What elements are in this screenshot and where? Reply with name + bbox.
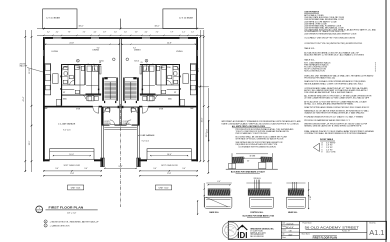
svg-text:17'-8": 17'-8" xyxy=(167,173,172,175)
courtyard dimension xyxy=(105,167,137,169)
svg-text:0607: 0607 xyxy=(289,234,293,236)
svg-text:● 2-CAR GARAGE: ● 2-CAR GARAGE xyxy=(58,123,76,126)
svg-text:2X6 EXT: 2X6 EXT xyxy=(20,64,26,66)
unit 102 label xyxy=(155,185,171,190)
sheet border right edge xyxy=(385,0,387,242)
svg-text:2'-10": 2'-10" xyxy=(310,196,312,200)
base sill detail xyxy=(206,182,232,184)
unit 101 label xyxy=(68,185,84,190)
svg-text:CONTROL SILL: CONTROL SILL xyxy=(250,212,264,214)
smoke detector symbols xyxy=(77,59,80,62)
svg-text:PORCH: PORCH xyxy=(104,123,111,125)
svg-text:TABLE 602 -: TABLE 602 - xyxy=(304,59,315,62)
svg-text:24'-0": 24'-0" xyxy=(207,128,209,133)
svg-text:LIN: LIN xyxy=(141,62,143,64)
svg-text:2009 VERMONT RESIDENTIAL BUILD: 2009 VERMONT RESIDENTIAL BUILDING ENERGY… xyxy=(304,32,357,35)
svg-text:PER ICC/ANSI A117.1 SECTION 10: PER ICC/ANSI A117.1 SECTION 1003 xyxy=(236,132,268,135)
svg-text:BASE SILL: BASE SILL xyxy=(210,211,220,214)
svg-text:Job: Job xyxy=(282,233,284,235)
svg-text:5'-9": 5'-9" xyxy=(135,32,138,34)
grab bar blocking detail toilet xyxy=(226,168,278,170)
svg-text:9'-0": 9'-0" xyxy=(182,168,186,170)
svg-text:STATE CODE AS APPLICABLE. VERI: STATE CODE AS APPLICABLE. VERIFY ALL BLO… xyxy=(221,122,299,125)
center property line xyxy=(120,104,122,207)
svg-text:9'-0" CLG: 9'-0" CLG xyxy=(142,141,150,143)
svg-text:36" MIN: 36" MIN xyxy=(249,155,256,157)
svg-text:DRAFTSTOPPING AND FIREBLOCKING: DRAFTSTOPPING AND FIREBLOCKING PER SEC R… xyxy=(304,106,369,109)
svg-text:56 OLD ACADEMY STREET: 56 OLD ACADEMY STREET xyxy=(305,225,359,229)
svg-text:FIRST FLOOR PLAN: FIRST FLOOR PLAN xyxy=(49,206,84,210)
svg-text:24" MIN CLEAR HEIGHT AND 20" M: 24" MIN CLEAR HEIGHT AND 20" MIN CLEAR W… xyxy=(304,97,370,100)
svg-text:UNIT #101: UNIT #101 xyxy=(71,188,82,190)
svg-text:1/4" = 1'-0": 1/4" = 1'-0" xyxy=(67,212,77,214)
svg-text:16'-0": 16'-0" xyxy=(69,154,74,156)
party wall xyxy=(119,37,121,125)
svg-text:TEL 603-888-3545: TEL 603-888-3545 xyxy=(250,234,263,236)
svg-text:20'-0": 20'-0" xyxy=(202,117,204,122)
svg-text:4'-0": 4'-0" xyxy=(217,181,221,183)
svg-text:9'-4": 9'-4" xyxy=(133,47,136,49)
bottom dimension row unit 102 xyxy=(139,170,198,172)
svg-text:7'-0": 7'-0" xyxy=(83,32,86,34)
svg-text:4'-2": 4'-2" xyxy=(182,32,185,34)
svg-text:SMOKE ALARMS SHALL COMPLY WITH: SMOKE ALARMS SHALL COMPLY WITH NFPA 72 A… xyxy=(304,82,363,85)
architect seal xyxy=(222,222,238,238)
svg-text:7'-9": 7'-9" xyxy=(170,32,173,34)
svg-text:FOUNDATION ANCHOR BOLTS 1/2" D: FOUNDATION ANCHOR BOLTS 1/2" DIA AT 6' O… xyxy=(304,115,364,118)
svg-text:12 X 24 BEAM: 12 X 24 BEAM xyxy=(46,16,60,19)
svg-text:34'-0": 34'-0" xyxy=(78,25,83,27)
svg-text:16'X7' OVHD DOOR: 16'X7' OVHD DOOR xyxy=(161,165,178,167)
svg-text:SEISMIC DESIGN CATEGORY B; WIN: SEISMIC DESIGN CATEGORY B; WIND SPEED 10… xyxy=(304,125,362,128)
svg-text:PROVIDED) PER TABLE R302.1(1): PROVIDED) PER TABLE R302.1(1) xyxy=(304,77,335,80)
beam note box left xyxy=(43,9,77,29)
svg-text:● 2-CAR GARAGE: ● 2-CAR GARAGE xyxy=(138,134,156,137)
svg-text:24'-8": 24'-8" xyxy=(69,43,74,45)
svg-text:= SMOKE DETECTOR - HARDWIRED,: = SMOKE DETECTOR - HARDWIRED, BATTERY BA… xyxy=(50,220,99,223)
svg-text:= CARBON DETECTOR: = CARBON DETECTOR xyxy=(50,224,70,227)
svg-text:22'-11": 22'-11" xyxy=(29,68,31,74)
svg-text:5'-0": 5'-0" xyxy=(124,32,127,34)
svg-text:IDI: IDI xyxy=(237,231,247,240)
svg-text:5'-2": 5'-2" xyxy=(47,32,50,34)
courtyard entry steps xyxy=(104,127,137,129)
head sill dimension xyxy=(308,182,310,209)
floor plan unit 101 walls and interior xyxy=(43,37,121,167)
head sill detail xyxy=(286,182,305,184)
svg-text:DOOR TABLE: DOOR TABLE xyxy=(320,138,334,141)
svg-text:7'-9": 7'-9" xyxy=(68,32,71,34)
svg-text:4'-0": 4'-0" xyxy=(94,32,97,34)
svg-text:18'-5": 18'-5" xyxy=(29,140,31,145)
svg-text:LIVING: LIVING xyxy=(176,51,183,53)
svg-text:A1.1: A1.1 xyxy=(369,228,384,237)
svg-text:9'-4": 9'-4" xyxy=(97,47,100,49)
svg-text:FIRST FLOOR PLAN: FIRST FLOOR PLAN xyxy=(313,236,337,239)
svg-text:Fairlee, VT: Fairlee, VT xyxy=(342,231,350,233)
svg-text:OCCUPANCY USE GROUP "R3" TWO D: OCCUPANCY USE GROUP "R3" TWO DWELLING UN… xyxy=(304,37,355,40)
segmented top dimension line xyxy=(37,34,204,36)
svg-text:CONSTRUCTION TYPE: 5B (UNPROTE: CONSTRUCTION TYPE: 5B (UNPROTECTED) NONP… xyxy=(304,43,363,45)
legend carbon detector xyxy=(44,224,47,227)
bottom dimension row unit 101 xyxy=(43,170,102,172)
svg-text:0: 0 xyxy=(375,70,376,72)
IDI logo house xyxy=(237,225,247,230)
svg-text:DINING: DINING xyxy=(134,49,141,51)
svg-text:UNIT #102: UNIT #102 xyxy=(159,188,170,190)
svg-text:Drawn: Drawn xyxy=(282,230,286,232)
first floor plan title symbol xyxy=(36,206,43,213)
title block frame xyxy=(228,221,386,239)
svg-text:NON CONSTRUCTION: NON CONSTRUCTION xyxy=(304,70,325,72)
control sill detail xyxy=(246,182,271,184)
svg-text:IN HALL CLG. INSULATE AND WEAT: IN HALL CLG. INSULATE AND WEATHERSTRIP P… xyxy=(304,102,354,105)
svg-text:9'-0": 9'-0" xyxy=(55,168,59,170)
svg-text:WITH FACE OF STUDS, CENTERED 3: WITH FACE OF STUDS, CENTERED 34" ABOVE F… xyxy=(236,138,285,141)
left vertical dimension line inner xyxy=(31,30,33,172)
svg-text:D: D xyxy=(94,64,95,66)
svg-text:KIT: KIT xyxy=(63,92,65,94)
left vertical dimension line outer xyxy=(24,30,26,172)
svg-text:16'-0" OVHD: 16'-0" OVHD xyxy=(326,152,336,154)
living dimension center ticks xyxy=(110,44,111,45)
title block logo section divider xyxy=(280,221,282,239)
svg-text:16'-1": 16'-1" xyxy=(198,67,200,72)
svg-text:2X8 BLKG: 2X8 BLKG xyxy=(253,178,261,180)
svg-text:9'-0": 9'-0" xyxy=(153,168,157,170)
svg-text:CONTRACTOR SHALL BE RESPONSIBL: CONTRACTOR SHALL BE RESPONSIBLE FOR POSI… xyxy=(304,132,367,135)
svg-text:17'-8": 17'-8" xyxy=(70,173,75,175)
svg-text:4'-2": 4'-2" xyxy=(56,32,59,34)
svg-text:PORCH: PORCH xyxy=(123,123,130,125)
svg-text:GUARDS 36" MIN HEIGHT WITH BAL: GUARDS 36" MIN HEIGHT WITH BALUSTERS AT … xyxy=(304,112,365,115)
svg-text:D: D xyxy=(147,64,148,66)
svg-text:5'-9": 5'-9" xyxy=(103,32,106,34)
svg-text:12 X 24 BEAM: 12 X 24 BEAM xyxy=(179,16,193,19)
svg-text:03-27-06: 03-27-06 xyxy=(287,223,294,225)
svg-text:1/4"=1'-0": 1/4"=1'-0" xyxy=(286,227,294,229)
svg-text:7'-0": 7'-0" xyxy=(156,32,159,34)
svg-text:HEAD SILL: HEAD SILL xyxy=(288,211,298,214)
svg-text:BUILDING HEIGHT = 2 STORIES 28: BUILDING HEIGHT = 2 STORIES 28'-6"; ALLO… xyxy=(304,54,364,57)
svg-text:5'-2": 5'-2" xyxy=(191,32,194,34)
title block data rows xyxy=(281,224,299,226)
svg-text:4'-0": 4'-0" xyxy=(145,32,148,34)
svg-text:5'-0": 5'-0" xyxy=(114,32,117,34)
svg-text:24'-8": 24'-8" xyxy=(167,43,172,45)
svg-text:10'-8": 10'-8" xyxy=(118,166,122,168)
door symbol xyxy=(313,143,319,151)
svg-text:41'-4": 41'-4" xyxy=(23,96,25,101)
svg-text:TABLE 503 -: TABLE 503 - xyxy=(304,47,315,50)
svg-text:LIVING: LIVING xyxy=(52,51,59,53)
svg-text:COORDINATE WITH PLUMBING ROUGH: COORDINATE WITH PLUMBING ROUGH-IN xyxy=(238,145,276,148)
overall top dimension line xyxy=(37,28,204,30)
floor plan unit 102 walls and interior (mirrored) xyxy=(121,37,199,167)
svg-text:PROVIDE ICE BARRIER AT EAVES P: PROVIDE ICE BARRIER AT EAVES PER R905.2.… xyxy=(304,119,350,122)
svg-text:34'-0": 34'-0" xyxy=(154,25,159,27)
svg-text:KIT: KIT xyxy=(174,92,176,94)
svg-text:LIN: LIN xyxy=(99,62,101,64)
legend smoke detector xyxy=(44,220,47,223)
beam note box right xyxy=(163,9,197,29)
site vertical dimension line xyxy=(208,120,210,142)
base sill left dimension xyxy=(197,200,199,215)
svg-text:16'-0": 16'-0" xyxy=(167,154,172,156)
svg-text:INNOVATIVE DESIGN, INC.: INNOVATIVE DESIGN, INC. xyxy=(250,227,274,230)
svg-text:9'-0": 9'-0" xyxy=(84,168,88,170)
svg-text:9'-0" CLG: 9'-0" CLG xyxy=(63,130,71,132)
svg-text:DINING: DINING xyxy=(93,49,100,51)
tall right dimension line xyxy=(207,88,209,174)
right vertical dimension lines xyxy=(199,30,201,162)
svg-text:1396 USED AS BACKERS AT TUB &: 1396 USED AS BACKERS AT TUB & SHOWER WAL… xyxy=(304,91,353,94)
svg-text:16'X7' OVHD DOOR: 16'X7' OVHD DOOR xyxy=(63,165,80,167)
